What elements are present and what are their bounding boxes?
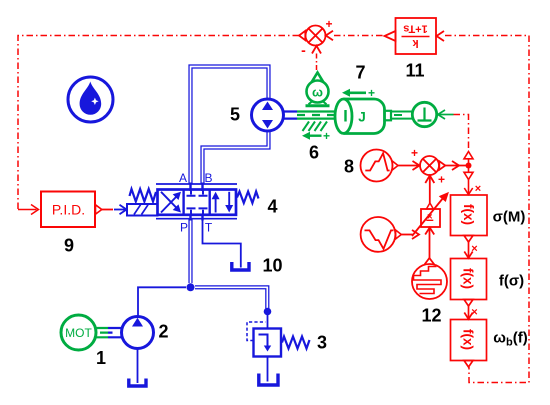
- svg-text:×: ×: [471, 243, 477, 255]
- svg-text:1+Ts: 1+Ts: [403, 23, 428, 35]
- svg-text:×: ×: [475, 183, 481, 195]
- svg-text:×: ×: [471, 307, 477, 319]
- svg-text:P.I.D.: P.I.D.: [52, 202, 85, 218]
- svg-text:2: 2: [158, 322, 168, 342]
- svg-text:k: k: [412, 37, 419, 49]
- svg-text:-: -: [301, 42, 306, 58]
- svg-text:J: J: [358, 110, 366, 125]
- svg-text:f(σ): f(σ): [499, 273, 524, 290]
- svg-text:f(x): f(x): [461, 329, 476, 350]
- svg-text:12: 12: [421, 306, 441, 326]
- svg-text:7: 7: [355, 63, 365, 83]
- svg-text:f(x): f(x): [461, 268, 476, 289]
- svg-text:+: +: [438, 173, 445, 187]
- svg-text:4: 4: [267, 197, 277, 217]
- svg-text:ω: ω: [312, 85, 323, 100]
- svg-text:B: B: [204, 171, 212, 185]
- svg-text:T: T: [205, 221, 213, 235]
- svg-text:MOT: MOT: [65, 326, 92, 340]
- svg-text:10: 10: [262, 256, 282, 276]
- svg-text:3: 3: [317, 333, 327, 353]
- svg-text:8: 8: [344, 157, 354, 177]
- svg-text:11: 11: [405, 61, 424, 81]
- svg-text:f(x): f(x): [461, 204, 476, 225]
- svg-text:5: 5: [230, 105, 240, 125]
- svg-text:9: 9: [64, 236, 74, 256]
- svg-text:×: ×: [427, 211, 433, 222]
- svg-text:6: 6: [309, 143, 319, 163]
- svg-text:+: +: [368, 86, 375, 100]
- svg-text:A: A: [179, 171, 187, 185]
- svg-text:σ(M): σ(M): [493, 209, 526, 226]
- svg-text:P: P: [180, 221, 188, 235]
- svg-text:1: 1: [96, 348, 106, 368]
- svg-text:+: +: [325, 17, 332, 31]
- svg-text:+: +: [411, 146, 418, 160]
- svg-text:+: +: [323, 129, 330, 143]
